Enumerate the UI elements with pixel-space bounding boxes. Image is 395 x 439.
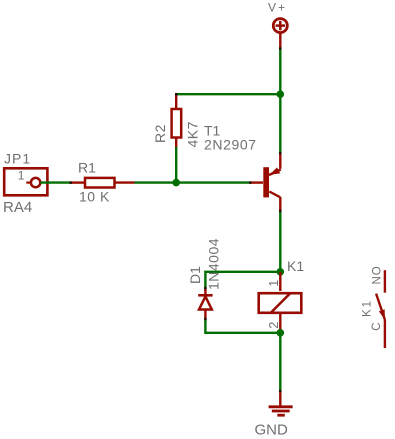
svg-text:10 K: 10 K xyxy=(79,189,110,205)
wire node B to T1 base xyxy=(176,181,250,183)
connector JP1 xyxy=(4,168,47,195)
svg-text:D1: D1 xyxy=(187,266,203,284)
svg-text:K1: K1 xyxy=(287,258,304,274)
wire node C to D1 cathode xyxy=(205,272,280,288)
resistor R1 xyxy=(70,178,135,188)
junction node C xyxy=(277,268,285,276)
svg-text:GND: GND xyxy=(255,422,289,439)
relay coil K1 pin 2 xyxy=(279,313,281,333)
svg-text:R2: R2 xyxy=(152,124,168,143)
resistor R2 xyxy=(172,95,182,147)
junction node A xyxy=(277,90,285,98)
svg-text:2N2907: 2N2907 xyxy=(204,137,257,153)
wire node A to T1 emitter xyxy=(279,94,281,153)
wire D1 anode to node D xyxy=(205,319,280,333)
diode D1 xyxy=(198,288,212,319)
junction node D xyxy=(277,329,285,337)
svg-text:V+: V+ xyxy=(268,1,287,15)
wire JP1 to R1 xyxy=(40,181,70,183)
svg-text:1: 1 xyxy=(18,169,25,183)
wire R1 to node B xyxy=(135,181,177,183)
transistor T1 xyxy=(250,153,281,211)
svg-text:1N4004: 1N4004 xyxy=(206,238,222,290)
wire T1 collector to node C xyxy=(279,211,281,272)
wire R2 bottom to node B xyxy=(175,147,177,183)
relay coil K1 pin 1 xyxy=(279,272,281,291)
svg-text:C: C xyxy=(371,322,383,330)
wire V+ stem to node A xyxy=(279,49,281,95)
svg-text:1: 1 xyxy=(267,280,281,287)
ground GND xyxy=(269,391,293,415)
junction node B xyxy=(172,179,180,187)
wire node A to R2 top xyxy=(176,94,280,96)
svg-text:JP1: JP1 xyxy=(4,151,31,167)
relay coil K1 xyxy=(259,293,302,313)
svg-text:4K7: 4K7 xyxy=(185,121,201,147)
power symbol V+ xyxy=(273,19,287,49)
pin connection nubs xyxy=(70,47,281,392)
svg-text:2: 2 xyxy=(267,322,281,329)
svg-text:NO: NO xyxy=(371,265,383,284)
wire node D to GND xyxy=(279,333,281,391)
svg-text:R1: R1 xyxy=(78,160,96,176)
svg-text:RA4: RA4 xyxy=(3,199,32,216)
svg-text:K1: K1 xyxy=(362,299,374,317)
relay contact K1 xyxy=(376,270,385,348)
